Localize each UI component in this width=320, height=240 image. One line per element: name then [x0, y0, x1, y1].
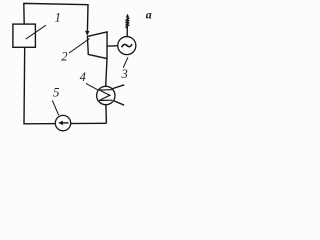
svg-text:1: 1	[55, 11, 61, 25]
svg-text:2: 2	[61, 50, 67, 64]
svg-text:a: a	[146, 8, 152, 22]
svg-text:5: 5	[53, 85, 59, 99]
svg-text:3: 3	[121, 67, 128, 81]
svg-text:4: 4	[80, 70, 86, 84]
